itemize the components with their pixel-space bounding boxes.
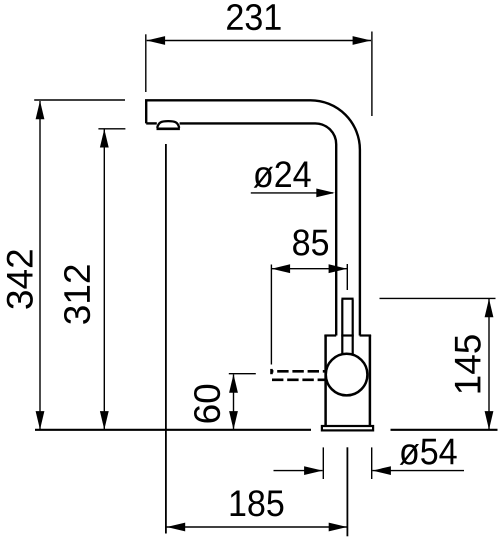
dimension ø54 xyxy=(274,447,465,479)
lever stem xyxy=(341,299,353,355)
base flange xyxy=(322,426,373,430)
spout outline outer xyxy=(146,100,360,335)
dimension 231 xyxy=(146,32,372,117)
ball joint circle xyxy=(326,354,368,396)
aerator bottom bar xyxy=(157,128,180,131)
aerator dome xyxy=(157,121,179,128)
body axis centerline lower xyxy=(346,447,348,536)
body top edge segments xyxy=(324,334,371,336)
dimension 185 xyxy=(167,526,348,528)
leader ø24 xyxy=(251,192,333,194)
dashed hidden outlet rectangle xyxy=(272,369,328,380)
dimension 342 xyxy=(34,100,125,429)
dimension 60 xyxy=(229,374,256,430)
spout axis centerline xyxy=(165,144,167,534)
spout outline inner xyxy=(146,122,157,124)
dimension 85 xyxy=(271,264,347,365)
dimension 312 xyxy=(98,129,125,430)
dimension 145 xyxy=(380,298,496,429)
countertop base line xyxy=(35,429,498,431)
faucet body housing xyxy=(326,335,370,426)
